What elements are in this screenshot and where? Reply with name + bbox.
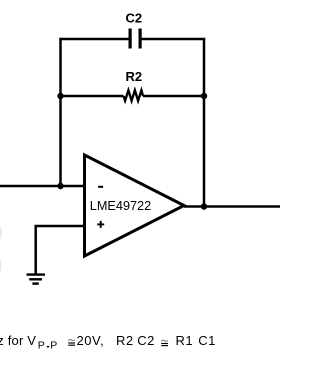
wire: R2 branch left segment — [61, 95, 124, 98]
svg-text:z for V: z for V — [0, 333, 36, 348]
svg-text:P: P — [38, 339, 45, 351]
capacitor C2 — [130, 29, 140, 49]
node: R2 right junction — [201, 93, 207, 99]
wire: non-inverting input line to ground — [36, 225, 85, 274]
svg-text:C2: C2 — [137, 333, 155, 348]
svg-text:C2: C2 — [125, 10, 142, 25]
svg-text:20V,: 20V, — [77, 333, 105, 348]
resistor R2 — [124, 90, 144, 100]
svg-text:R1: R1 — [176, 333, 194, 348]
cropped artifact left edge lower — [0, 259, 2, 272]
wire: left feedback riser from inverting node up to top branch — [59, 39, 128, 186]
wire: R2 branch right segment — [143, 95, 204, 98]
caption approx-equal symbol after VP-P — [68, 339, 75, 345]
op-amp non-inverting input marker + — [97, 221, 104, 228]
node: R2 left junction — [57, 93, 63, 99]
svg-text:P: P — [50, 339, 57, 351]
wire: inverting input line from left edge to op-amp — [0, 185, 85, 188]
node: output junction — [201, 203, 207, 209]
svg-text:R2: R2 — [116, 333, 134, 348]
caption subscript P-P — [38, 339, 58, 351]
wire: top branch right of C2 down to output node — [142, 38, 206, 207]
cropped artifact left edge upper — [0, 226, 2, 240]
ground — [27, 275, 46, 284]
svg-text:C1: C1 — [198, 333, 216, 348]
op-amp inverting input marker - — [98, 186, 103, 188]
svg-text:LME49722: LME49722 — [90, 199, 151, 213]
wire: output line from op-amp to right edge — [184, 205, 280, 208]
svg-text:R2: R2 — [125, 69, 142, 84]
node: inverting input junction — [57, 183, 63, 189]
caption approx-equal symbol between C2 and R1 — [161, 340, 168, 346]
op-amp U1 — [85, 155, 185, 256]
